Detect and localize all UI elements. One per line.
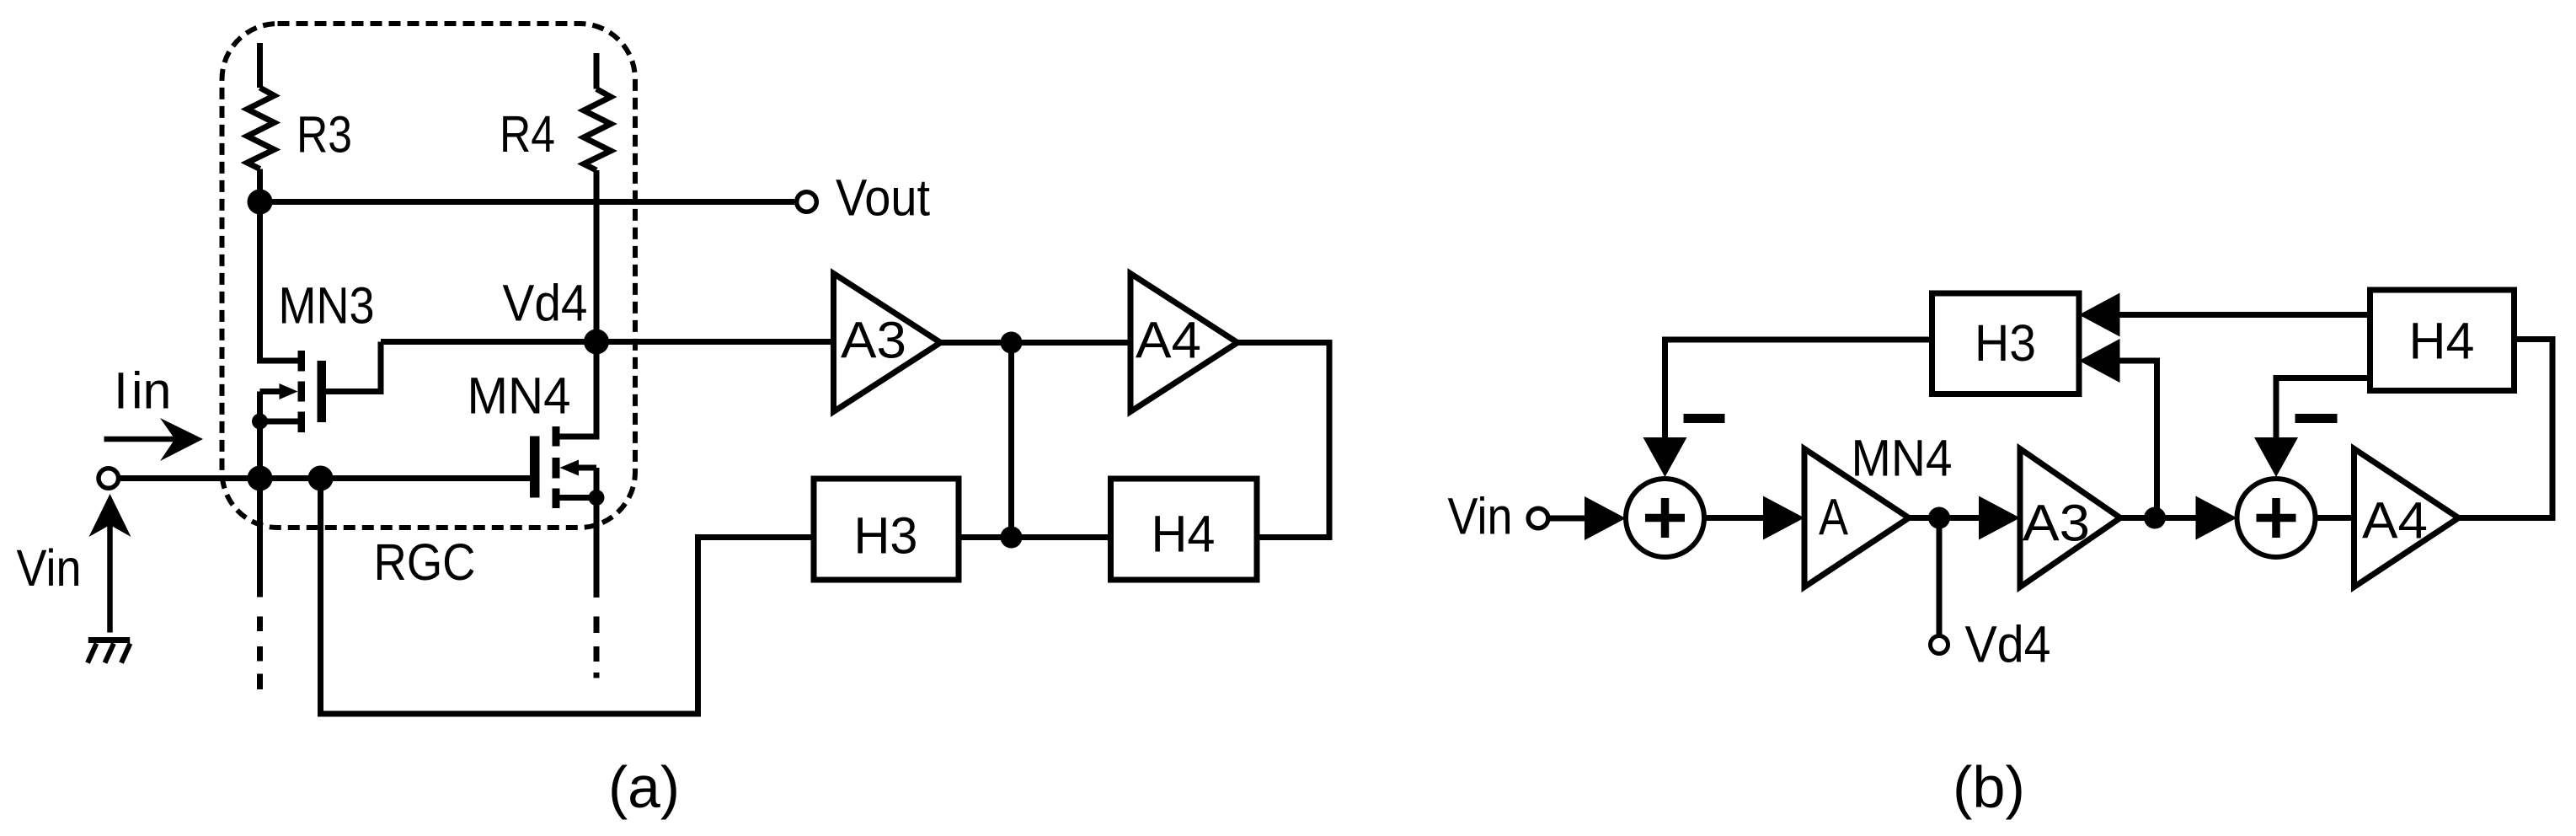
node R3 drain junction (248, 190, 273, 215)
wire left tail below rail (current source continuation) (257, 479, 263, 598)
node input rail junction A (248, 466, 273, 491)
plus sign S1 (1645, 498, 1685, 538)
Iin arrow shaft (104, 437, 178, 442)
wire H3 output feedback to S1 (1665, 340, 1932, 439)
svg-text:Iin: Iin (114, 362, 171, 420)
svg-text:Vd4: Vd4 (503, 275, 588, 332)
svg-text:A3: A3 (2023, 495, 2090, 552)
wire A4 output to H4 input (1237, 343, 1329, 538)
Iin arrowhead (160, 418, 203, 461)
wire MN3 source (260, 419, 298, 425)
transistor MN4 contacts (553, 426, 560, 508)
block H4 (b) (2370, 290, 2515, 391)
svg-text:Vin: Vin (1448, 488, 1513, 545)
wire MN3 gate lead to Vd4 line (326, 342, 381, 392)
block H3 (814, 479, 959, 580)
node input rail junction B (308, 466, 334, 491)
MN3 bulk arrow shaft (260, 389, 281, 394)
svg-text:Vout: Vout (836, 169, 930, 227)
minus sign at S2 (2295, 414, 2338, 423)
wire H4 lower output to S2 (2276, 378, 2370, 440)
svg-text:R4: R4 (500, 105, 555, 163)
svg-text:A4: A4 (1136, 312, 1201, 369)
dashed region boundary RGC (222, 24, 636, 528)
minus sign at S1 (1684, 414, 1725, 423)
svg-text:(b): (b) (1953, 754, 2025, 820)
terminal Vin open circle (b) (1528, 508, 1548, 528)
MN4 bulk arrow shaft (576, 465, 596, 471)
node A3 output junction (1001, 332, 1023, 354)
transistor MN3 contacts (298, 351, 306, 432)
svg-text:H3: H3 (1975, 314, 2036, 372)
node after A3 (2144, 507, 2166, 529)
wire MN4 source (560, 495, 597, 501)
wire R4 top stub (594, 53, 600, 89)
summing node S2 (2237, 479, 2316, 557)
MN4 bulk arrowhead (560, 460, 580, 476)
terminal Vin open circle (99, 469, 119, 489)
svg-text:(a): (a) (608, 754, 680, 820)
summing node S1 (1626, 479, 1704, 557)
arrow node to A3 (1950, 515, 1981, 521)
node Vd4 (584, 330, 609, 355)
op-amp A3 (834, 274, 941, 412)
svg-text:A: A (1819, 489, 1848, 546)
svg-text:H3: H3 (854, 507, 918, 565)
transistor MN3 gate bar (318, 361, 327, 422)
wire R4 bottom to Vd4 node (594, 170, 600, 342)
node MN3 bulk-source junction (252, 414, 268, 430)
wire R3 bottom to node (257, 169, 263, 202)
resistor R4 (584, 89, 611, 171)
svg-text:H4: H4 (2409, 313, 2475, 370)
wire Vd4 node to MN4 drain (560, 342, 597, 437)
resistor R3 (248, 88, 275, 169)
wire A3 output to S2 (2120, 515, 2199, 521)
svg-text:A3: A3 (841, 312, 906, 369)
svg-text:Vin: Vin (17, 539, 82, 597)
wire A3 output to A4 input (941, 340, 1131, 346)
arrow Vin to summing node S1 (1548, 516, 1587, 522)
wire H3 output return to input rail (321, 479, 815, 715)
arrow S1 to amplifier A (1704, 515, 1766, 521)
wire MN3 bulk down (257, 392, 263, 422)
svg-text:MN4: MN4 (1852, 430, 1953, 487)
wire input rail Vin to MN4 gate (120, 475, 530, 481)
amplifier A3 (b) (2020, 449, 2120, 587)
transistor MN4 gate bar (530, 437, 540, 498)
wire node to MN3 drain (260, 202, 298, 362)
svg-text:R3: R3 (297, 106, 352, 163)
node MN4 bulk-source junction (589, 490, 605, 506)
wire Vout line (260, 199, 795, 205)
svg-text:A4: A4 (2362, 492, 2428, 549)
plus sign S2 (2257, 498, 2296, 538)
arrowhead into H3 upper input (2079, 293, 2120, 337)
wire H4 to H3 (959, 534, 1111, 540)
arrowhead into S2 (2196, 496, 2237, 540)
wire MN4 bulk down (594, 468, 600, 498)
svg-text:H4: H4 (1152, 506, 1216, 563)
wire S2 to A4 (2316, 515, 2354, 521)
svg-text:MN4: MN4 (468, 367, 571, 425)
arrowhead feedback into S1 top (1643, 437, 1687, 477)
node after A (1928, 507, 1950, 529)
wire node down to Vd4 terminal (1937, 518, 1943, 636)
node H3-H4 line junction (1001, 527, 1023, 549)
MN3 bulk arrowhead (280, 383, 298, 399)
amplifier A4 (b) (2354, 449, 2459, 587)
wire MN3 source to input rail (257, 421, 263, 479)
block H4 (1111, 479, 1258, 580)
wire A output (1909, 515, 1956, 521)
terminal Vout open circle (797, 192, 817, 212)
wire A3 output down to H3-H4 line (1008, 343, 1014, 538)
svg-text:RGC: RGC (374, 533, 476, 591)
terminal Vd4 open circle (b) (1931, 636, 1948, 654)
block H3 (b) (1932, 293, 2080, 394)
wire R3 top stub (257, 43, 263, 88)
svg-text:Vd4: Vd4 (1965, 616, 2051, 673)
wire node up to H3 lower input (2120, 361, 2157, 518)
arrowhead feedback into S2 top (2254, 437, 2298, 477)
ground symbol (88, 637, 130, 643)
wire right tail below MN4 (current source continuation) (594, 498, 600, 598)
Vin source arrow shaft (107, 522, 113, 633)
wire H4 output to H3 upper input (2120, 312, 2370, 318)
wire A4 output to H4 input (2459, 340, 2553, 518)
arrowhead into H3 lower input (2079, 339, 2120, 383)
wire Vd4 line to A3 input (381, 339, 834, 345)
op-amp A4 (1130, 274, 1237, 412)
svg-text:MN3: MN3 (279, 277, 375, 335)
Vin source arrowhead (89, 494, 131, 537)
amplifier A (MN4) (1804, 449, 1909, 587)
